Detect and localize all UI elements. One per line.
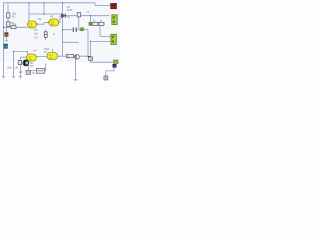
capacitor C3 plates [44, 32, 47, 38]
diode D1 [62, 13, 66, 17]
wire left ground rail [3, 3, 5, 77]
wire V supply mid [62, 3, 64, 56]
label bottom-left values [7, 62, 35, 74]
svg-text:R1: R1 [12, 14, 16, 18]
resistor R3 horizontal [11, 26, 16, 29]
resistor R9 series b [99, 22, 104, 25]
wire IC3 input loop [14, 51, 28, 54]
wire ground ticks [2, 41, 77, 81]
wire IC3 lower input [20, 56, 26, 58]
wire stub to R1 [7, 3, 9, 28]
capacitor C5 polar [88, 56, 93, 60]
op-amp IC4 [47, 53, 58, 60]
resistor R8 series a [89, 22, 92, 25]
capacitor C8 grey [26, 70, 36, 74]
wire buzzer feed [91, 61, 114, 63]
label R3 [11, 22, 16, 25]
wire R network right [78, 16, 80, 30]
label R2 value [12, 22, 17, 26]
label R8 R9 [93, 20, 103, 23]
label R1 value [12, 12, 17, 19]
resistor R1 [7, 13, 10, 18]
connector K1 [112, 15, 117, 25]
wire C7 up [44, 63, 47, 70]
wire buzzer return [106, 67, 114, 76]
svg-text:4148: 4148 [67, 9, 73, 12]
schematic tinted area [0, 0, 120, 62]
background sheet [0, 0, 120, 84]
resistor R2 [7, 22, 10, 27]
junction node dots [3, 2, 91, 57]
svg-text:100k: 100k [7, 67, 13, 70]
battery BT1 red [111, 3, 117, 8]
resistor R11 [18, 60, 21, 64]
capacitor C7 box [37, 68, 45, 73]
pin 3 mark IC1 [36, 23, 37, 24]
wire series RC right [90, 16, 92, 24]
wire K2 pin 2 [91, 41, 112, 43]
capacitor C1 electrolytic [5, 33, 9, 37]
wire cap branch [45, 30, 47, 40]
wire to IC1 pin 1 [28, 3, 30, 21]
resistor R6 small [77, 13, 80, 17]
wire top supply rail [3, 3, 111, 6]
transistor Q2 dark [23, 60, 29, 66]
svg-text:10n: 10n [34, 32, 39, 35]
wire cap row mid [63, 29, 89, 31]
wire riser x88 [87, 30, 89, 57]
wire supply drop [43, 3, 45, 14]
label D1 [67, 6, 73, 19]
wire IC3 base drop [28, 61, 30, 71]
buzzer BZ1 green top [114, 60, 118, 63]
wire to C7 [29, 70, 37, 72]
label net feedback texts [33, 16, 55, 54]
op-amp IC2 [49, 19, 59, 26]
wire Q1 emitter [75, 59, 77, 79]
wire IC1 to IC2 [37, 23, 50, 25]
wire to C1 [5, 27, 7, 41]
pin mark IC2 [48, 22, 49, 23]
svg-text:1M: 1M [33, 50, 36, 53]
op-amp IC1 [28, 21, 37, 28]
wire to K2 [100, 26, 111, 37]
connector J3 grey [104, 76, 108, 80]
svg-text:R: R [53, 33, 55, 36]
wire bottom bus [63, 41, 79, 43]
wire right drop [90, 42, 92, 63]
svg-text:10u: 10u [32, 72, 37, 75]
LED small green [81, 28, 84, 31]
svg-text:10n: 10n [19, 71, 24, 74]
capacitor C2 tantalum [4, 44, 8, 48]
svg-text:557: 557 [30, 65, 35, 68]
wire V x20.4 [19, 57, 21, 76]
wire V x13.6 [13, 51, 15, 76]
capacitor C4 [73, 28, 76, 32]
wire node A horizontal [4, 26, 28, 28]
wire IC2 output up [59, 16, 61, 23]
wire IC4 output row [58, 55, 89, 57]
wire IC3 to IC4 [36, 49, 53, 57]
buzzer BZ1 dark base [113, 64, 116, 67]
connector K2 [111, 34, 116, 44]
op-amp IC3 [27, 54, 37, 61]
transistor Q1 [75, 54, 80, 59]
resistor R10 with value [67, 54, 74, 58]
wire diode row [60, 15, 110, 17]
wire feedback bus [29, 13, 63, 15]
